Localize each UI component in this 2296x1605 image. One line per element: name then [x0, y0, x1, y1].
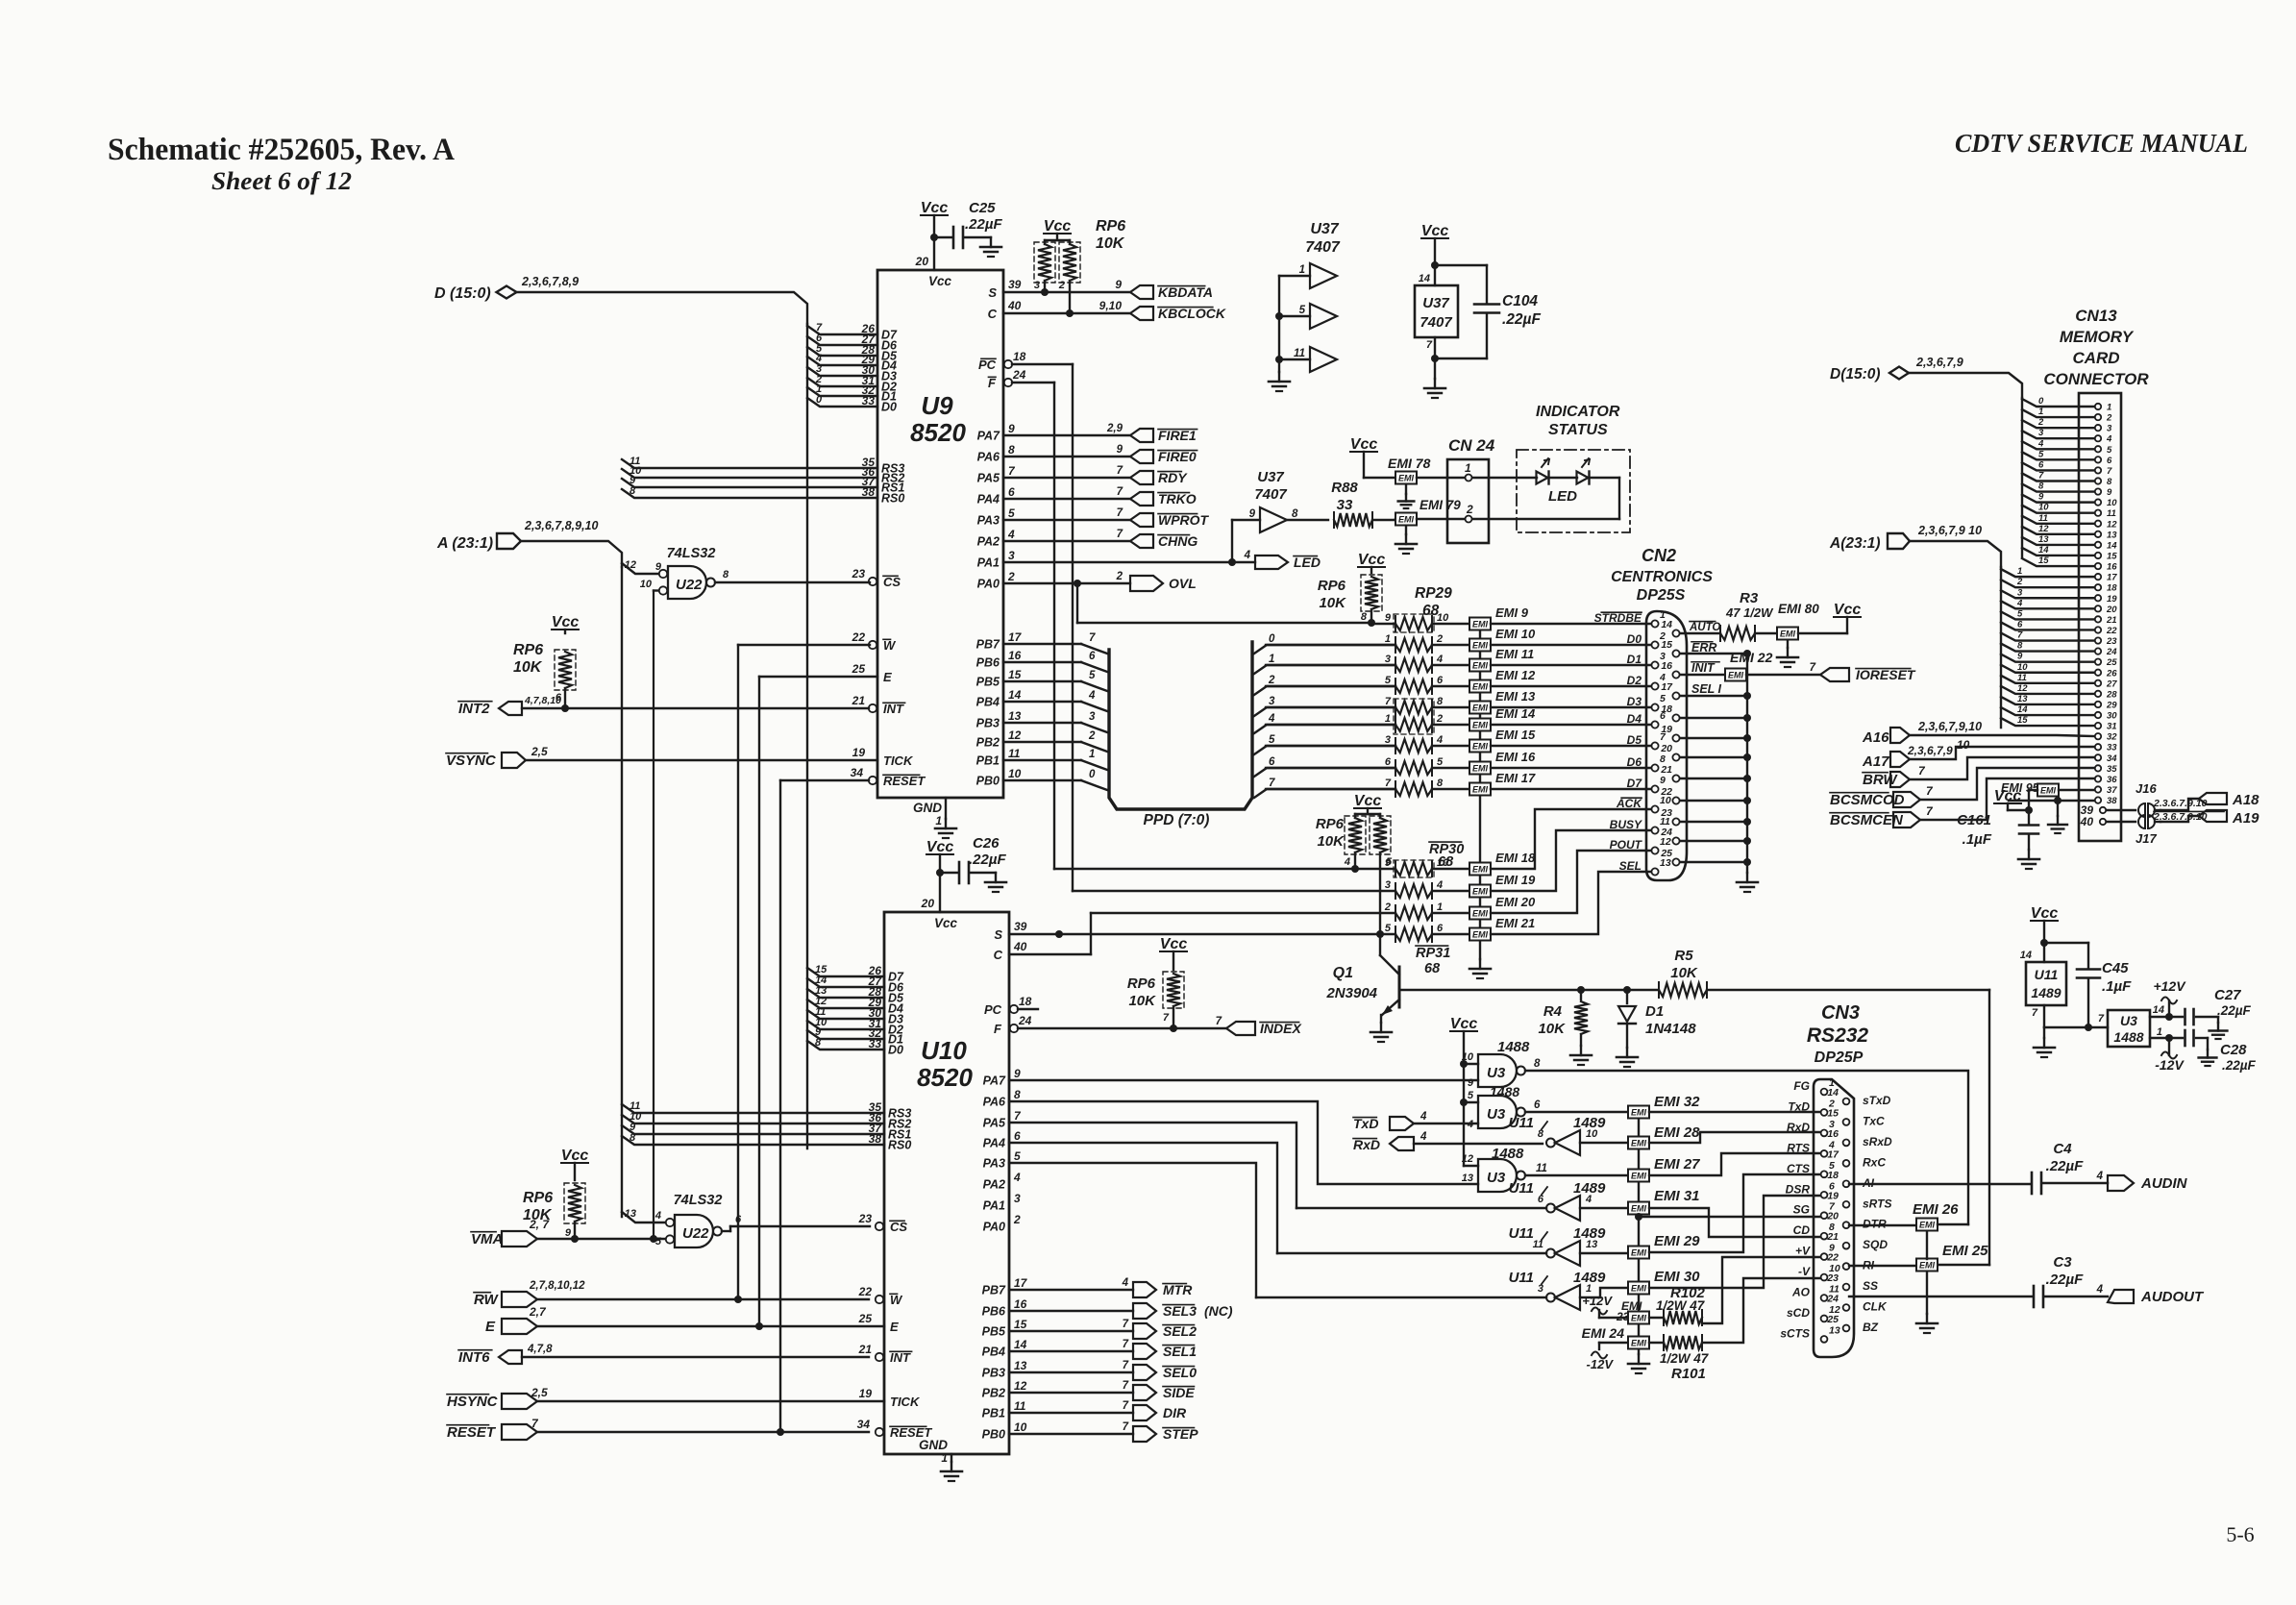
svg-text:5: 5	[1437, 756, 1444, 768]
svg-text:6: 6	[1385, 756, 1392, 768]
svg-text:SQD: SQD	[1863, 1238, 1888, 1251]
svg-text:2N3904: 2N3904	[1325, 985, 1377, 1001]
svg-text:19: 19	[1827, 1190, 1839, 1201]
svg-text:6: 6	[1014, 1129, 1021, 1143]
svg-text:34: 34	[851, 766, 864, 779]
svg-text:EMI 22: EMI 22	[1730, 650, 1773, 665]
svg-text:22: 22	[858, 1285, 873, 1298]
svg-text:PA1: PA1	[977, 556, 1000, 570]
svg-text:CHNG: CHNG	[1158, 533, 1197, 549]
svg-text:6: 6	[2017, 619, 2023, 630]
flags MTR SEL3 SEL2 SEL1 SEL0 SIDE DIR STEP from U10 PB	[1009, 1277, 1233, 1442]
U10 pin 24 F	[994, 1014, 1173, 1036]
svg-text:14: 14	[1661, 619, 1672, 630]
U10 pin 18 PC	[984, 995, 1038, 1017]
svg-text:PC: PC	[978, 358, 997, 372]
svg-text:C26: C26	[973, 835, 1000, 852]
jumpers J16 J17 with flags A18 A19	[2107, 781, 2259, 846]
connector CN2 DP25S shell	[1646, 611, 1687, 880]
svg-text:38: 38	[2107, 796, 2117, 806]
svg-text:RS232: RS232	[1807, 1025, 1869, 1047]
svg-text:5: 5	[1269, 734, 1275, 746]
svg-text:EMI: EMI	[1472, 721, 1489, 730]
svg-text:CN 24: CN 24	[1448, 436, 1495, 455]
U10 data pins D7-D0 with bus stubs (bits 15-8)	[807, 964, 904, 1057]
svg-text:STEP: STEP	[1163, 1426, 1198, 1442]
svg-text:R101: R101	[1671, 1366, 1706, 1382]
svg-text:0: 0	[816, 394, 823, 406]
svg-text:12: 12	[625, 559, 636, 571]
svg-text:23: 23	[1826, 1272, 1839, 1284]
svg-text:2: 2	[2037, 417, 2044, 428]
EMI filter EMI79 with ground	[1395, 498, 1461, 554]
flag INDEX from U10 F	[1173, 1016, 1302, 1036]
flag BCSMCEN to CN13 pin 36	[1830, 778, 2094, 828]
svg-text:RESET: RESET	[890, 1425, 932, 1440]
svg-text:30: 30	[2107, 711, 2117, 722]
svg-text:10: 10	[640, 579, 653, 590]
svg-text:C28: C28	[2220, 1042, 2247, 1058]
svg-text:10K: 10K	[1128, 993, 1156, 1009]
svg-text:0: 0	[1089, 769, 1096, 780]
svg-text:-V: -V	[1798, 1265, 1811, 1278]
svg-text:W: W	[883, 638, 897, 653]
svg-text:8: 8	[2017, 641, 2023, 652]
connector CN3 title	[1807, 1002, 1869, 1066]
svg-text:INDICATOR: INDICATOR	[1536, 404, 1620, 420]
CN13 pins 39 40	[2080, 803, 2107, 828]
svg-text:WPROT: WPROT	[1158, 512, 1210, 528]
buffers U37 7407 x3 with common input and ground	[1269, 221, 1341, 391]
svg-text:RESET: RESET	[883, 774, 926, 788]
EMI filter EMI95 with Vcc	[1994, 781, 2094, 814]
svg-text:E: E	[890, 1320, 899, 1334]
svg-text:SIDE: SIDE	[1163, 1385, 1195, 1400]
svg-text:10: 10	[1008, 767, 1022, 780]
svg-text:U11: U11	[1509, 1115, 1534, 1131]
svg-text:4: 4	[1420, 1111, 1427, 1123]
EMI 9-21 filter chain to ground	[1469, 624, 1491, 978]
svg-text:D3: D3	[1627, 695, 1642, 708]
svg-text:20: 20	[915, 255, 929, 268]
svg-text:PA7: PA7	[983, 1074, 1006, 1088]
gate U22 74LS32 (lower)	[622, 1193, 870, 1247]
svg-text:27: 27	[2106, 679, 2117, 689]
svg-text:Vcc: Vcc	[934, 916, 958, 930]
svg-text:U9: U9	[921, 391, 953, 420]
svg-text:PA0: PA0	[977, 578, 1000, 591]
svg-text:EMI 20: EMI 20	[1495, 895, 1536, 909]
svg-text:TxD: TxD	[1353, 1116, 1378, 1131]
flag RESET with wire to U10 /RESET	[447, 1417, 869, 1441]
svg-text:5: 5	[2017, 608, 2023, 619]
svg-text:PB4: PB4	[976, 696, 1000, 709]
svg-text:TICK: TICK	[890, 1395, 921, 1409]
inverter U11 1489 (3<-1)	[1256, 1270, 1628, 1310]
svg-text:INT: INT	[883, 702, 904, 716]
capacitor C3 .22uF to AUDOUT flag	[1849, 1254, 2205, 1307]
flag KBCLOCK	[1099, 299, 1226, 321]
svg-text:RxC: RxC	[1863, 1155, 1886, 1169]
IC U11 1489 power block	[2020, 943, 2108, 1057]
svg-text:7: 7	[1117, 486, 1123, 498]
svg-text:16: 16	[2107, 562, 2117, 573]
svg-text:EMI 12: EMI 12	[1495, 668, 1536, 682]
svg-text:9: 9	[1468, 1077, 1474, 1089]
label RP30 68 (upper)	[1429, 842, 1464, 870]
svg-text:7: 7	[1117, 529, 1123, 540]
svg-text:13: 13	[1008, 709, 1022, 723]
svg-text:EMI 10: EMI 10	[1495, 627, 1536, 641]
svg-text:EMI 80: EMI 80	[1778, 602, 1819, 616]
EMI filter EMI32	[1628, 1094, 1820, 1119]
svg-text:.22µF: .22µF	[2222, 1058, 2257, 1073]
svg-text:2: 2	[1088, 730, 1096, 742]
svg-text:16: 16	[1827, 1128, 1839, 1140]
wire: U9 /F down to EMI18 row	[1054, 383, 1395, 869]
svg-text:RP29: RP29	[1415, 585, 1452, 602]
svg-text:2: 2	[1007, 570, 1015, 583]
flag A16 to CN13 pin 32	[1862, 720, 2094, 746]
connector CN24	[1417, 436, 1619, 543]
svg-text:E: E	[883, 670, 892, 684]
svg-text:19: 19	[852, 746, 866, 759]
svg-text:.1µF: .1µF	[2102, 978, 2132, 995]
svg-text:EMI: EMI	[1472, 887, 1489, 897]
U10 pin 39 S	[994, 920, 1026, 942]
svg-text:2,5: 2,5	[531, 745, 548, 758]
svg-text:22: 22	[1826, 1252, 1839, 1264]
svg-text:EMI 17: EMI 17	[1495, 771, 1536, 785]
wire: A bus to CN13	[1910, 541, 2001, 728]
svg-text:U3: U3	[1487, 1170, 1506, 1186]
svg-text:13: 13	[1829, 1324, 1840, 1336]
svg-text:1: 1	[1437, 901, 1443, 913]
svg-text:EMI: EMI	[1631, 1284, 1647, 1294]
svg-text:5: 5	[1014, 1149, 1021, 1163]
svg-text:7: 7	[2017, 630, 2023, 641]
flag INT6 with wire to U10 /INT	[458, 1344, 869, 1366]
transistor Q1 2N3904	[1325, 934, 1581, 1042]
svg-text:5-6: 5-6	[2226, 1522, 2254, 1546]
svg-text:14: 14	[2017, 704, 2028, 715]
svg-text:5: 5	[655, 1236, 662, 1247]
svg-text:9: 9	[2017, 652, 2023, 662]
svg-text:Vcc: Vcc	[561, 1148, 589, 1164]
svg-text:10K: 10K	[513, 659, 543, 676]
svg-text:4: 4	[1436, 879, 1443, 891]
svg-text:21: 21	[1660, 764, 1672, 776]
svg-text:4: 4	[1344, 856, 1350, 868]
resistor pack RP6 10K on KB lines with Vcc	[1034, 218, 1125, 317]
svg-text:EMI: EMI	[1472, 930, 1489, 940]
svg-text:68: 68	[1424, 961, 1441, 976]
svg-text:23: 23	[1660, 807, 1672, 819]
CN2 right labels	[1689, 622, 1722, 696]
svg-text:11: 11	[1008, 747, 1021, 760]
svg-text:RxD: RxD	[1787, 1121, 1810, 1134]
svg-text:PB5: PB5	[976, 676, 1000, 689]
svg-text:1/2W 47: 1/2W 47	[1660, 1351, 1710, 1366]
svg-text:2: 2	[1466, 503, 1473, 516]
U9 pin 25 E	[852, 662, 892, 684]
flag INT2 with wire to U9 /INT	[458, 695, 869, 717]
bus flag D(15:0)	[434, 275, 579, 302]
svg-text:CD: CD	[1793, 1223, 1811, 1237]
svg-text:5: 5	[1299, 305, 1306, 316]
connector CN3 DP25P shell	[1814, 1079, 1854, 1357]
svg-text:36: 36	[2107, 775, 2117, 785]
svg-text:7: 7	[1385, 778, 1392, 789]
svg-text:2, 7: 2, 7	[529, 1218, 550, 1231]
svg-text:10K: 10K	[1319, 595, 1346, 611]
svg-text:U37: U37	[1257, 469, 1284, 485]
svg-text:12: 12	[1014, 1379, 1027, 1393]
svg-text:25: 25	[858, 1312, 873, 1325]
resistor R101 1/2W 47	[1660, 1278, 1820, 1382]
U9 port-A pin labels PA7-PA0 (pins 9-2)	[977, 422, 1016, 591]
svg-text:17: 17	[1827, 1148, 1839, 1160]
svg-text:C: C	[988, 307, 998, 321]
svg-text:.22µF: .22µF	[2046, 1272, 2084, 1288]
wires: A bus stubs to CN13 pins 17-31	[2001, 566, 2094, 726]
svg-text:13: 13	[1462, 1173, 1473, 1184]
flag BRW to CN13 pin 34	[1863, 757, 2094, 788]
svg-text:S: S	[994, 927, 1002, 942]
inverter U11 1489 (11<-13)	[1277, 1225, 1628, 1266]
svg-text:PB0: PB0	[976, 775, 1000, 788]
svg-text:+V: +V	[1795, 1245, 1811, 1258]
svg-text:C161: C161	[1957, 812, 1991, 828]
svg-text:U37: U37	[1310, 221, 1339, 237]
CN2 right pins 14-25	[1660, 619, 1679, 866]
svg-text:2: 2	[1058, 280, 1065, 291]
svg-text:6: 6	[1538, 1194, 1544, 1205]
EMI column vertical with ground	[1628, 1112, 1649, 1373]
resistor R88 33	[1331, 480, 1395, 528]
svg-text:EMI 79: EMI 79	[1420, 498, 1461, 512]
svg-text:7: 7	[1216, 1016, 1222, 1027]
svg-text:17: 17	[1661, 681, 1673, 693]
flag RxD from U11a	[1353, 1131, 1543, 1152]
svg-text:21: 21	[858, 1343, 873, 1356]
wire: D bus vertical	[806, 324, 808, 1148]
dashed pack box on row 904	[1394, 860, 1434, 877]
svg-text:INT: INT	[890, 1350, 911, 1365]
flag OVL from U9 PA0	[1003, 571, 1197, 591]
svg-text:2: 2	[1116, 571, 1123, 582]
svg-text:PB2: PB2	[982, 1387, 1005, 1400]
capacitor C45 .1uF	[2077, 943, 2132, 1031]
wire: U10 C up to EMI20 row	[1009, 913, 1395, 954]
flag VMA with wire	[471, 1218, 665, 1247]
svg-text:MTR: MTR	[1163, 1282, 1193, 1297]
U9 pin 39 S	[988, 278, 1130, 300]
svg-text:8: 8	[1292, 508, 1298, 520]
svg-text:EMI 29: EMI 29	[1654, 1233, 1700, 1249]
EMI filter EMI23 with +12V feed	[1582, 1294, 1664, 1324]
svg-text:PA1: PA1	[983, 1199, 1005, 1213]
svg-text:5: 5	[2107, 445, 2112, 456]
svg-text:DTR: DTR	[1863, 1218, 1887, 1231]
label RP31 68	[1416, 946, 1450, 976]
svg-text:W: W	[890, 1293, 903, 1307]
svg-text:10: 10	[2107, 498, 2117, 508]
svg-text:3: 3	[1385, 654, 1391, 665]
gate U3 1488 (pins 10,9->8)	[1009, 1039, 1541, 1089]
svg-text:KBDATA: KBDATA	[1158, 284, 1213, 300]
svg-text:A(23:1): A(23:1)	[1829, 535, 1881, 552]
svg-text:24: 24	[1012, 368, 1026, 382]
svg-text:TxD: TxD	[1788, 1099, 1810, 1113]
svg-text:Vcc: Vcc	[928, 274, 952, 288]
svg-text:BRW: BRW	[1863, 772, 1898, 788]
svg-text:1: 1	[1465, 461, 1471, 475]
inverter U11 1489 (6<-4)	[1296, 1180, 1628, 1221]
svg-text:EMI: EMI	[1472, 865, 1489, 875]
svg-text:sCTS: sCTS	[1780, 1326, 1810, 1340]
svg-text:U11: U11	[1509, 1180, 1534, 1197]
svg-text:15: 15	[1008, 668, 1022, 681]
svg-text:1: 1	[2157, 1026, 2162, 1038]
U9 data pin labels D7-D0 (pins 26-33)	[861, 322, 898, 414]
resistor pack RP6 10K on INT2 with Vcc	[513, 614, 579, 712]
svg-text:10K: 10K	[1670, 965, 1698, 981]
svg-text:0: 0	[1269, 633, 1275, 645]
svg-text:PA2: PA2	[983, 1178, 1005, 1192]
svg-text:EMI 27: EMI 27	[1654, 1156, 1700, 1173]
U9 pin 40 C	[988, 299, 1130, 321]
svg-text:VMA: VMA	[471, 1231, 503, 1247]
svg-text:19: 19	[2107, 594, 2117, 605]
IC U37 7407 power block with Vcc	[1415, 223, 1458, 398]
svg-text:U22: U22	[682, 1225, 709, 1242]
svg-text:12: 12	[2038, 524, 2049, 534]
svg-text:D0: D0	[888, 1044, 903, 1057]
svg-text:EMI 9: EMI 9	[1495, 605, 1529, 620]
svg-text:4,7,8,10: 4,7,8,10	[524, 695, 561, 706]
svg-text:EMI 31: EMI 31	[1654, 1188, 1700, 1204]
capacitor C104 .22uF across U37	[1431, 265, 1541, 362]
svg-text:EMI 30: EMI 30	[1654, 1269, 1700, 1285]
connector CN13 body	[2079, 393, 2121, 841]
svg-text:EMI: EMI	[1472, 785, 1489, 795]
svg-text:25: 25	[2106, 657, 2117, 668]
bus flag D(15:0) at CN13	[1830, 356, 1963, 383]
EMI filter EMI25 on RI with ground	[1849, 1231, 1988, 1333]
wire: U10 PA6 routed to U3c pin 13	[1009, 1101, 1478, 1184]
svg-text:.22µF: .22µF	[1502, 311, 1541, 328]
svg-text:U37: U37	[1422, 295, 1449, 311]
svg-text:12: 12	[1008, 728, 1022, 742]
svg-text:EMI: EMI	[1919, 1221, 1936, 1230]
svg-text:STATUS: STATUS	[1548, 422, 1608, 438]
svg-text:8: 8	[1014, 1088, 1021, 1101]
svg-text:18: 18	[1827, 1170, 1839, 1181]
svg-text:EMI 28: EMI 28	[1654, 1124, 1700, 1141]
svg-text:4: 4	[654, 1210, 661, 1222]
svg-text:STRDBE: STRDBE	[1594, 611, 1642, 625]
gate U22 74LS32 (upper) with input/output wires	[622, 546, 870, 599]
svg-text:RxD: RxD	[1353, 1137, 1380, 1152]
svg-text:PC: PC	[984, 1002, 1002, 1017]
svg-text:9: 9	[1115, 278, 1122, 291]
svg-text:CS: CS	[883, 575, 901, 589]
svg-text:8: 8	[1437, 696, 1444, 707]
U10 port-A pin labels PA7-PA0	[983, 1067, 1022, 1234]
svg-text:EMI: EMI	[1472, 764, 1489, 774]
svg-text:SEL0: SEL0	[1163, 1365, 1197, 1380]
svg-text:-12V: -12V	[2155, 1057, 2185, 1073]
svg-text:J17: J17	[2136, 831, 2157, 846]
svg-text:40: 40	[1007, 299, 1022, 312]
svg-text:CTS: CTS	[1787, 1162, 1810, 1175]
svg-text:BZ: BZ	[1863, 1321, 1879, 1334]
svg-text:D2: D2	[1627, 674, 1642, 687]
svg-text:R88: R88	[1331, 480, 1358, 496]
svg-text:EMI: EMI	[1472, 661, 1489, 671]
wire: A bus to vertical	[521, 541, 622, 567]
EMI filter EMI24 with -12V feed	[1582, 1325, 1664, 1371]
IC U9 8520 body	[877, 270, 1003, 827]
svg-text:11: 11	[1014, 1399, 1026, 1413]
svg-text:R5: R5	[1674, 948, 1693, 964]
wire: D bus to CN13	[1909, 373, 2022, 557]
svg-text:7: 7	[1089, 632, 1096, 644]
resistor network RP29/RP30 rows with EMI 9-17 filters	[1266, 605, 1651, 797]
U9 pin 21 /INT	[852, 694, 905, 716]
svg-text:DSR: DSR	[1786, 1182, 1811, 1196]
svg-text:D(15:0): D(15:0)	[1830, 366, 1881, 383]
svg-text:3: 3	[2017, 587, 2023, 598]
svg-text:+12V: +12V	[2153, 978, 2186, 994]
svg-text:D0: D0	[881, 401, 897, 414]
svg-text:4: 4	[1007, 528, 1015, 541]
svg-text:14: 14	[2107, 540, 2117, 551]
svg-text:RP31: RP31	[1416, 946, 1450, 961]
svg-text:FG: FG	[1793, 1079, 1810, 1093]
U10 port-B pin labels PB7-PB0	[982, 1276, 1028, 1442]
svg-text:LED: LED	[1548, 488, 1577, 505]
ground at U9 GND pin	[935, 798, 956, 838]
svg-text:7: 7	[1385, 696, 1392, 707]
svg-text:8: 8	[2107, 477, 2112, 487]
svg-text:C: C	[994, 948, 1003, 962]
svg-text:C45: C45	[2102, 960, 2129, 976]
svg-text:40: 40	[1013, 940, 1027, 953]
svg-text:6: 6	[2107, 456, 2112, 466]
svg-text:CDTV SERVICE MANUAL: CDTV SERVICE MANUAL	[1955, 129, 2248, 158]
svg-text:13: 13	[1586, 1239, 1597, 1250]
dashed pack boxes on rows	[1394, 614, 1434, 734]
resistor network RP30/RP31 rows with EMI 18-21 filters	[1384, 851, 1536, 942]
svg-text:F: F	[988, 376, 997, 390]
svg-text:EMI: EMI	[1472, 641, 1489, 651]
IC U10 8520 body	[884, 912, 1009, 1465]
svg-text:3: 3	[1008, 549, 1015, 562]
svg-text:1: 1	[1385, 633, 1391, 645]
svg-text:2,3,6,7,9: 2,3,6,7,9	[1907, 744, 1953, 757]
svg-text:21: 21	[1826, 1231, 1839, 1243]
svg-text:24: 24	[1826, 1294, 1839, 1305]
svg-text:9: 9	[565, 1227, 572, 1239]
svg-text:24: 24	[2106, 647, 2117, 657]
svg-text:sTxD: sTxD	[1863, 1094, 1891, 1107]
svg-text:D6: D6	[1627, 755, 1642, 769]
svg-text:9: 9	[2107, 487, 2112, 498]
svg-text:SEL I: SEL I	[1691, 682, 1722, 696]
svg-text:R4: R4	[1543, 1003, 1563, 1020]
